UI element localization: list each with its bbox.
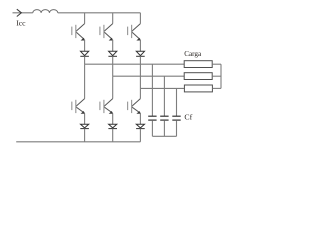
wire cap bus [152, 135, 176, 137]
diode D3 [136, 51, 145, 56]
wire D4 to negative rail [84, 129, 86, 142]
wire D3 to phase C [139, 56, 141, 88]
wire collector Q1 [84, 13, 86, 24]
wire D2 to phase B [112, 56, 114, 76]
diode D2 [108, 51, 117, 56]
wire phase C to Q6 [139, 88, 141, 98]
transistor Q5 (IGBT) [100, 99, 113, 114]
wire Cf1 to cap bus [151, 120, 153, 136]
transistor Q6 (IGBT) [128, 99, 141, 114]
diode D4 [80, 124, 89, 128]
wire phase C [140, 87, 184, 89]
capacitor Cf1 [148, 116, 156, 120]
capacitor Cf3 [172, 116, 180, 120]
wire input segment [13, 12, 33, 14]
wire Cf2 to cap bus [163, 120, 165, 136]
diode D5 [108, 124, 117, 128]
wire tap phase C to Cf3 [176, 88, 178, 116]
wire top rail [58, 12, 141, 14]
wire box3 to right bus [212, 87, 221, 89]
svg-text:Cf: Cf [184, 112, 192, 121]
wire collector Q3 [139, 13, 141, 24]
wire phase B [113, 75, 185, 77]
diode D6 [136, 124, 145, 128]
svg-text:Carga: Carga [184, 50, 202, 58]
wire box2 to right bus [212, 75, 221, 77]
wire negative rail [16, 141, 140, 143]
wire phase A to Q4 [84, 64, 86, 98]
wire tap phase B to Cf2 [163, 76, 165, 116]
wire phase B to Q5 [112, 76, 114, 98]
wire collector Q2 [112, 13, 114, 24]
transistor Q2 (IGBT) [100, 24, 113, 41]
wire emitter Q1 [84, 40, 86, 51]
svg-text:Icc: Icc [16, 19, 26, 28]
wire emitter Q2 [112, 40, 114, 51]
wire emitter Q4 [84, 113, 86, 124]
load resistor box 1 [184, 61, 212, 68]
wire D5 to negative rail [112, 129, 114, 142]
capacitor Cf2 [160, 116, 168, 120]
wire D6 to negative rail [139, 129, 141, 142]
transistor Q1 (IGBT) [72, 24, 85, 41]
wire emitter Q6 [139, 113, 141, 124]
transistor Q4 (IGBT) [72, 99, 85, 114]
wire box1 to right bus [212, 63, 221, 65]
wire Cf3 to cap bus [176, 120, 178, 136]
load resistor box 2 [184, 73, 212, 80]
wire emitter Q3 [139, 40, 141, 51]
arrow input Icc [17, 9, 22, 16]
inductor L [33, 10, 58, 13]
wire load right bus [220, 64, 222, 88]
load resistor box 3 [184, 85, 212, 92]
wire emitter Q5 [112, 113, 114, 124]
diode D1 [80, 51, 89, 56]
wire tap phase A to Cf1 [151, 64, 153, 116]
wire D1 to phase A [84, 56, 86, 64]
wire phase A [85, 63, 185, 65]
transistor Q3 (IGBT) [128, 24, 141, 41]
